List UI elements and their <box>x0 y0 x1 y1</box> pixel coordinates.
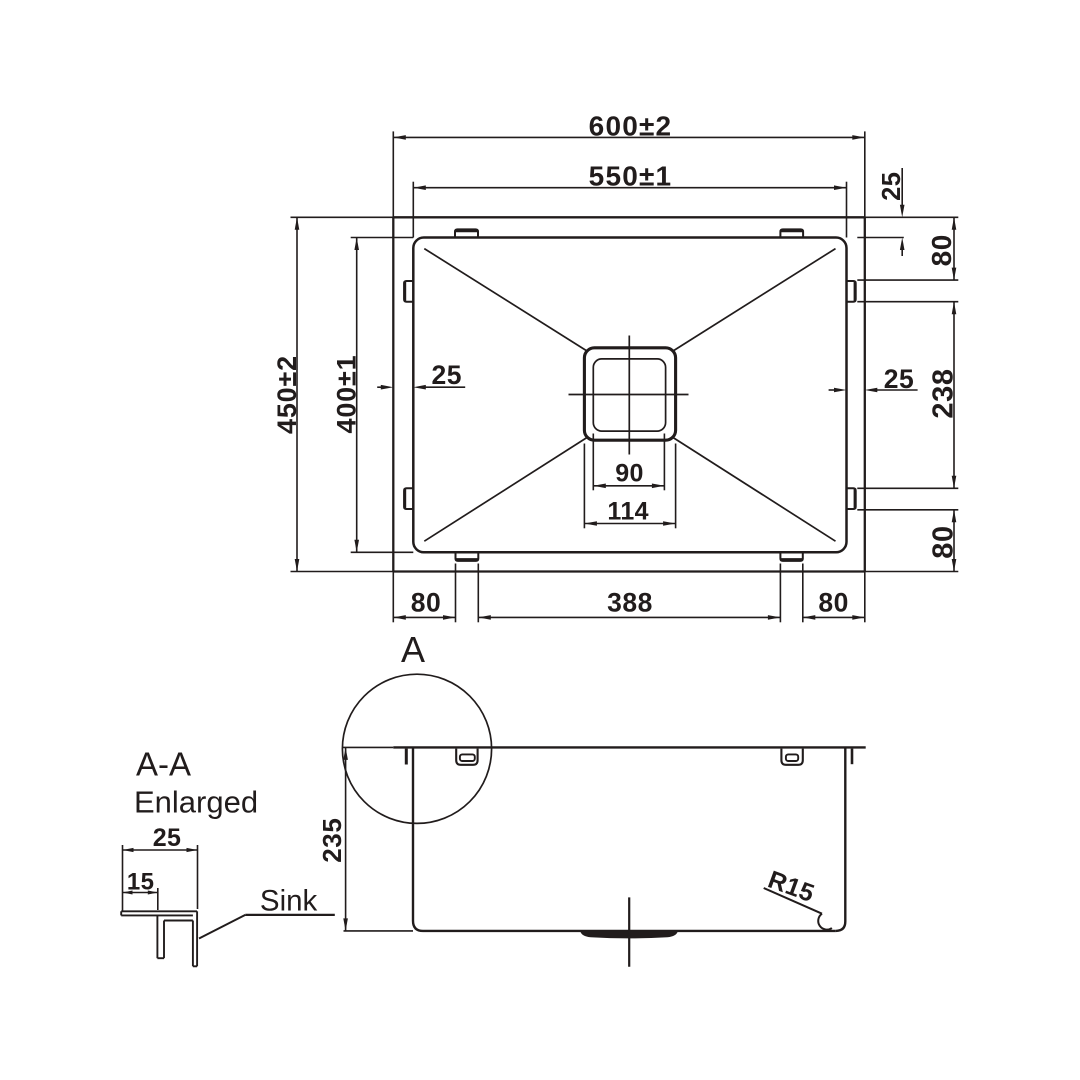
dimension 25 top-right rim (vertical) <box>857 168 906 256</box>
section drain boss <box>580 931 678 938</box>
section top surface line with left extension <box>342 746 866 748</box>
svg-text:600±2: 600±2 <box>589 110 673 141</box>
sink outer rim right edge (plan), extended for dims <box>864 131 866 622</box>
mounting clip top-left (plan) <box>455 229 478 237</box>
svg-text:25: 25 <box>431 360 461 390</box>
bowl corner diagonal top-right <box>673 249 836 351</box>
svg-text:388: 388 <box>607 588 653 618</box>
bowl corner diagonal bottom-left <box>424 438 587 542</box>
dimension 80 right-bottom with extension line <box>857 510 959 572</box>
section bowl bottom line with left extension <box>344 930 836 932</box>
svg-text:114: 114 <box>607 498 649 526</box>
bowl corner diagonal bottom-right <box>673 438 836 542</box>
label Enlarged <box>134 784 258 819</box>
drain centerline vertical <box>628 336 630 455</box>
svg-text:80: 80 <box>818 588 848 618</box>
drain outer square <box>584 348 675 440</box>
detail circle A <box>342 674 491 823</box>
mounting clip bottom-right (plan) <box>780 552 802 561</box>
mounting clip top-right (plan) <box>780 229 803 237</box>
label Sink with leader <box>199 885 335 939</box>
section bowl right wall with R15 corner <box>836 747 846 931</box>
mounting clip left-upper (plan) <box>404 281 413 302</box>
rim profile bowl wall (detail) <box>193 911 197 966</box>
section mounting clip right <box>781 749 802 765</box>
svg-text:400±1: 400±1 <box>332 355 362 434</box>
svg-text:80: 80 <box>411 588 441 618</box>
svg-text:80: 80 <box>928 525 960 558</box>
svg-text:25: 25 <box>878 172 906 201</box>
bowl corner diagonal top-left <box>424 249 587 351</box>
svg-text:238: 238 <box>928 368 960 418</box>
dimension 235 section depth <box>317 747 348 931</box>
section bowl left wall <box>413 747 423 931</box>
label A <box>401 629 425 670</box>
dimension 80 bottom-right with extension lines <box>803 564 865 623</box>
dimension 238 right with extension lines <box>857 302 959 489</box>
svg-text:80: 80 <box>926 234 957 266</box>
sink outer rim top edge (plan), extended for dims <box>291 216 959 218</box>
section drain centerline <box>628 897 630 966</box>
dimension 25 left rim <box>377 360 465 390</box>
svg-text:A-A: A-A <box>136 745 191 782</box>
section rim hem tick right <box>851 749 854 765</box>
dimension 450±2 (overall depth) <box>272 217 302 571</box>
label A-A <box>136 745 191 782</box>
mounting clip right-upper (plan) <box>847 281 856 302</box>
dimension 80 bottom-left with extension lines <box>393 564 455 623</box>
sink outer rim bottom edge (plan), extended for dims <box>291 571 959 573</box>
dimension 114 drain flange with extension lines <box>584 444 675 529</box>
mounting clip bottom-left (plan) <box>456 552 479 561</box>
dimension 15 hem offset (detail) with extension line <box>123 868 158 910</box>
rim profile hem fold (detail) <box>157 915 164 958</box>
dimension 80 right-top with extension line <box>857 217 958 280</box>
label R15 with leader <box>764 866 832 930</box>
svg-text:550±1: 550±1 <box>589 161 673 192</box>
dimension 90 drain with extension lines <box>593 434 664 491</box>
drain centerline horizontal <box>569 394 689 396</box>
dimension 550±1 (bowl width) with extension lines <box>413 161 846 238</box>
svg-text:90: 90 <box>615 459 644 487</box>
svg-text:Enlarged: Enlarged <box>134 784 258 819</box>
rim profile shelf (detail) <box>164 920 193 922</box>
drain inner square <box>593 359 665 431</box>
svg-text:Sink: Sink <box>260 885 318 918</box>
svg-text:A: A <box>401 629 425 670</box>
svg-text:25: 25 <box>153 824 182 852</box>
svg-text:25: 25 <box>884 364 914 394</box>
rim profile plate (detail) <box>121 911 197 915</box>
bowl rounded rectangle (plan) <box>413 238 846 553</box>
section rim hem tick left <box>405 749 408 765</box>
dimension 388 bottom with extension lines <box>478 564 780 623</box>
sink outer rim left edge (plan), extended for dims <box>392 131 394 622</box>
dimension 600±2 (overall width) <box>393 110 865 141</box>
mounting clip left-lower (plan) <box>404 488 413 509</box>
svg-text:450±2: 450±2 <box>272 355 302 434</box>
dimension 400±1 (bowl depth) with extension lines <box>332 238 414 553</box>
section mounting clip left <box>456 749 477 765</box>
mounting clip right-lower (plan) <box>847 488 856 509</box>
dimension 25 right rim <box>829 364 918 394</box>
svg-text:235: 235 <box>317 818 347 863</box>
svg-text:R15: R15 <box>764 866 818 908</box>
svg-text:15: 15 <box>127 868 155 895</box>
dimension 25 rim width (detail) with extension lines <box>123 824 198 911</box>
